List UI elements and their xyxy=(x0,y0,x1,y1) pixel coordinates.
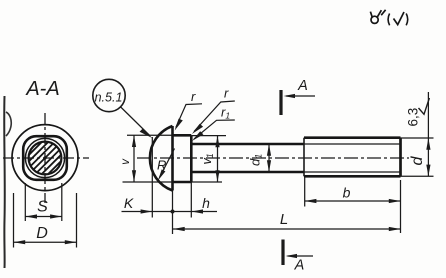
section cut trace lower xyxy=(281,240,284,266)
svg-text:h: h xyxy=(202,195,210,211)
dimension line v1 xyxy=(217,136,219,182)
parenthesis left xyxy=(388,14,390,26)
arrow R xyxy=(158,169,166,180)
dimension line b xyxy=(305,200,401,202)
dim S: extension and dimension lines xyxy=(25,183,62,221)
balloon circle n.5.1 xyxy=(93,79,125,111)
centerline vertical xyxy=(44,113,46,203)
svg-text:D: D xyxy=(36,225,48,242)
svg-text:v1: v1 xyxy=(200,153,215,164)
leader r (head edge) xyxy=(176,104,202,128)
junction dot K/h xyxy=(171,210,175,214)
label v xyxy=(120,158,132,165)
centerline xyxy=(137,157,409,159)
dimension line v xyxy=(133,135,135,182)
hatching xyxy=(17,130,72,185)
head dome arc R xyxy=(150,126,173,191)
label v1 xyxy=(200,153,215,164)
arrows b xyxy=(305,199,401,203)
svg-text:A: A xyxy=(297,78,308,94)
v / v1 extension lines xyxy=(123,135,227,182)
svg-text:r1: r1 xyxy=(221,105,230,121)
roughness 6,3 xyxy=(419,98,430,114)
svg-text:d1: d1 xyxy=(248,154,264,166)
arrows d xyxy=(426,138,430,176)
scan blob xyxy=(6,112,11,136)
neck (square sub-head) xyxy=(173,135,192,182)
extension line h (neck end) xyxy=(190,182,192,218)
extension line bolt end xyxy=(400,180,402,233)
arrow h xyxy=(191,209,203,213)
label d1 xyxy=(248,154,264,166)
arrows v1 xyxy=(215,136,219,182)
svg-text:S: S xyxy=(37,199,48,216)
section view arrow lower xyxy=(288,255,314,257)
threaded portion xyxy=(304,138,401,177)
svg-text:R: R xyxy=(157,158,166,173)
parenthesis right xyxy=(406,14,408,26)
svg-text:b: b xyxy=(343,185,351,201)
head circle D xyxy=(12,125,78,191)
svg-text:d: d xyxy=(409,156,426,166)
shank circle xyxy=(29,142,62,175)
section cut trace upper xyxy=(279,90,282,115)
extension line b (thread start) xyxy=(304,177,306,207)
section view arrow upper xyxy=(286,95,315,97)
dim d: extension lines, dimension line, roughness carrier line xyxy=(401,92,434,176)
svg-text:n.5.1: n.5.1 xyxy=(95,91,123,105)
extension line bearing face / L start xyxy=(172,191,174,235)
center dot xyxy=(43,156,46,159)
svg-text:r: r xyxy=(224,86,229,101)
arrows S xyxy=(25,214,62,218)
svg-text:A: A xyxy=(294,258,305,274)
svg-text:r: r xyxy=(191,89,196,104)
svg-text:v: v xyxy=(120,158,132,165)
square neck S xyxy=(23,136,67,180)
centerline horizontal xyxy=(3,157,89,159)
arrows d1 xyxy=(267,144,271,172)
svg-text:A-A: A-A xyxy=(25,78,59,100)
label d xyxy=(409,156,426,166)
svg-text:L: L xyxy=(280,211,288,228)
arrows L xyxy=(173,227,401,231)
arrows D xyxy=(14,240,77,244)
dimension line d1 xyxy=(268,144,270,172)
svg-text:6,3: 6,3 xyxy=(405,108,420,127)
leader r1 xyxy=(192,105,235,142)
dimension line L xyxy=(173,228,401,230)
shank d1 xyxy=(191,144,304,172)
check mark xyxy=(394,12,405,25)
balloon leader line xyxy=(121,107,151,136)
neck fillet circle xyxy=(25,138,64,177)
dimension line K-h xyxy=(122,211,218,213)
leader r (neck) xyxy=(194,101,235,132)
svg-text:K: K xyxy=(124,195,134,211)
head face xyxy=(171,126,174,191)
top-right roughness general mark xyxy=(370,10,385,24)
extension line K (head top) xyxy=(151,137,153,218)
arrow K xyxy=(141,209,153,213)
scan edge streak xyxy=(3,96,6,268)
arrows v xyxy=(132,135,136,182)
balloon leader arrow xyxy=(140,129,153,139)
dim D: extension and dimension lines xyxy=(14,193,77,248)
radius R leader xyxy=(160,149,175,178)
